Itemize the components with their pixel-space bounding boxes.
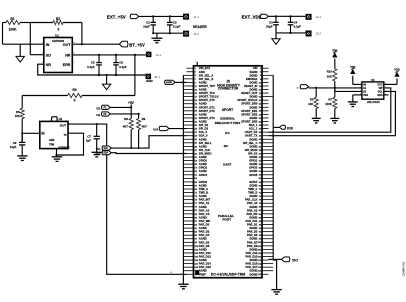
wire: [139, 15, 184, 17]
svg-text:100K: 100K: [325, 102, 332, 106]
wire SCL to EEPROM: [269, 88, 391, 133]
svg-text:TRM: TRM: [49, 144, 54, 147]
node J2-1 pad: [306, 15, 321, 20]
svg-text:DGND: DGND: [249, 237, 257, 241]
svg-text:3: 3: [360, 90, 361, 92]
svg-text:VREF: VREF: [199, 272, 207, 276]
node P1 flag: [96, 105, 132, 110]
svg-text:AGND: AGND: [199, 183, 207, 187]
svg-text:GPIO0: GPIO0: [199, 159, 208, 163]
svg-text:SD: SD: [46, 53, 51, 57]
capacitor C4: [288, 16, 302, 33]
svg-text:J4-1: J4-1: [156, 53, 162, 57]
svg-text:DC: DC: [225, 131, 230, 135]
svg-text:0.1µF: 0.1µF: [87, 65, 95, 69]
svg-text:AGND: AGND: [199, 215, 207, 219]
svg-text:U2: U2: [59, 117, 63, 121]
node J4-1 testpoint: [147, 51, 162, 57]
svg-text:4K7: 4K7: [142, 124, 148, 128]
svg-text:IO8: IO8: [287, 127, 293, 131]
svg-text:PAR_WR: PAR_WR: [199, 219, 211, 223]
svg-text:VDD: VDD: [332, 49, 337, 52]
node BT_+5V flag: [119, 41, 145, 47]
svg-text:HEADER: HEADER: [193, 25, 208, 29]
svg-text:GPIO4: GPIO4: [199, 173, 208, 177]
node J1-1 pad: [184, 14, 199, 19]
svg-text:SPORT_DT3: SPORT_DT3: [199, 116, 215, 120]
svg-text:UART_TX: UART_TX: [245, 134, 258, 138]
wire AGND rail: [38, 64, 147, 75]
connector J5 body: [194, 61, 263, 277]
svg-text:PAR_D7: PAR_D7: [247, 240, 258, 244]
svg-text:10µF: 10µF: [143, 25, 150, 29]
svg-text:DGND: DGND: [249, 183, 257, 187]
wire: [384, 78, 397, 84]
node EXT_VDD flag: [242, 14, 269, 19]
wire SCL: [111, 136, 186, 148]
capacitor C7: [86, 123, 100, 152]
svg-text:SDA: SDA: [377, 94, 382, 97]
node U14 flag: [153, 126, 186, 131]
svg-text:2: 2: [360, 87, 361, 89]
wire: [138, 114, 140, 119]
node divider: [29, 43, 31, 45]
node J1 HEADER: [193, 25, 208, 29]
svg-text:U14: U14: [153, 127, 158, 131]
node VIO flag: [269, 257, 299, 263]
svg-text:SPI_MISO: SPI_MISO: [199, 151, 212, 155]
svg-text:DGND: DGND: [249, 70, 257, 74]
svg-text:AGND: AGND: [199, 194, 207, 198]
svg-text:AGND: AGND: [199, 155, 207, 159]
svg-text:SDA_0: SDA_0: [199, 134, 208, 138]
svg-text:PAR_A2: PAR_A2: [247, 208, 258, 212]
svg-text:PAR_D10: PAR_D10: [199, 251, 211, 255]
svg-text:PAR_D17: PAR_D17: [245, 265, 257, 269]
svg-text:AGND: AGND: [199, 247, 207, 251]
wire AGND bus left: [182, 75, 184, 284]
wire: [384, 94, 389, 96]
svg-text:10µF: 10µF: [10, 145, 17, 149]
svg-text:TMR_D: TMR_D: [248, 191, 257, 195]
svg-text:SPI_SS: SPI_SS: [248, 151, 258, 155]
wire DGND bus right: [273, 75, 276, 289]
svg-text:AGND: AGND: [199, 88, 207, 92]
svg-text:AGND: AGND: [199, 112, 207, 116]
ground: [16, 44, 24, 62]
svg-text:DGND: DGND: [249, 169, 257, 173]
svg-text:TMR_A: TMR_A: [199, 187, 208, 191]
svg-text:VDD: VDD: [394, 69, 399, 72]
svg-text:PAR_D0: PAR_D0: [199, 223, 210, 227]
resistor R10 pullup: [327, 59, 337, 88]
svg-text:PAR_D16: PAR_D16: [199, 265, 211, 269]
svg-text:U4: U4: [371, 78, 375, 82]
svg-text:TMR_C: TMR_C: [248, 187, 257, 191]
svg-text:PAR_D4: PAR_D4: [199, 233, 210, 237]
wire: [152, 32, 184, 34]
svg-text:4K7: 4K7: [123, 124, 129, 128]
svg-text:GND: GND: [199, 70, 205, 74]
svg-text:VSS: VSS: [363, 94, 368, 97]
ground: [178, 284, 188, 289]
svg-text:DGND: DGND: [249, 226, 257, 230]
svg-text:PAR_D2: PAR_D2: [199, 230, 210, 234]
svg-text:AGND: AGND: [199, 269, 207, 273]
svg-text:SPI_SEL_B: SPI_SEL_B: [199, 77, 214, 81]
svg-text:PAR_CS: PAR_CS: [199, 212, 210, 216]
svg-text:VIN_BAT: VIN_BAT: [199, 66, 211, 70]
ground: [330, 118, 339, 123]
node EXT_+5V flag: [107, 14, 139, 19]
svg-text:PAR_D15: PAR_D15: [245, 262, 257, 266]
svg-text:PAR_D14: PAR_D14: [199, 262, 211, 266]
resistor R1: [3, 17, 31, 32]
resistor R4: [22, 88, 135, 102]
svg-text:SPORT_TSCLK: SPORT_TSCLK: [199, 95, 219, 99]
wire: [276, 32, 306, 34]
wire: [56, 149, 58, 157]
svg-text:NR: NR: [46, 63, 52, 67]
svg-text:AGND: AGND: [199, 162, 207, 166]
ground: [92, 152, 102, 157]
svg-text:SPI_SEL_A: SPI_SEL_A: [199, 73, 214, 77]
svg-text:GPIO6: GPIO6: [199, 180, 208, 184]
svg-text:U1: U1: [55, 33, 59, 37]
wire: [335, 88, 362, 92]
svg-text:DGND: DGND: [249, 194, 257, 198]
svg-text:DGND: DGND: [249, 95, 257, 99]
svg-text:0.1µF: 0.1µF: [294, 25, 302, 29]
svg-text:AGND: AGND: [199, 144, 207, 148]
node OUT: [81, 43, 83, 45]
svg-text:PAR_RD: PAR_RD: [247, 212, 258, 216]
svg-text:SPORT_DR3: SPORT_DR3: [241, 120, 258, 124]
svg-text:R6: R6: [310, 97, 314, 101]
capacitor C3: [266, 16, 279, 33]
svg-text:AGND: AGND: [199, 205, 207, 209]
capacitor C1: [143, 16, 156, 33]
svg-text:60: 60: [170, 272, 172, 274]
svg-text:DGND: DGND: [249, 73, 257, 77]
resistor R2: [30, 17, 82, 32]
svg-text:6: 6: [385, 90, 386, 92]
svg-text:UART_RX: UART_RX: [245, 130, 258, 134]
svg-text:DGND: DGND: [249, 88, 257, 92]
power VDD: [350, 66, 355, 74]
wire: [21, 96, 23, 109]
svg-text:1µF: 1µF: [86, 138, 91, 142]
svg-text:0.1µF: 0.1µF: [119, 65, 127, 69]
svg-text:1: 1: [195, 61, 196, 63]
svg-text:SPI_D3: SPI_D3: [199, 127, 209, 131]
svg-text:11485-001: 11485-001: [401, 261, 405, 276]
svg-text:PAR_D9: PAR_D9: [247, 244, 258, 248]
svg-text:VIN: VIN: [253, 66, 258, 70]
svg-text:SCL_0: SCL_0: [199, 130, 208, 134]
svg-text:0: 0: [58, 28, 60, 32]
svg-text:J1-1: J1-1: [193, 15, 199, 19]
svg-text:PAR_D5: PAR_D5: [247, 233, 258, 237]
svg-text:BMODE1: BMODE1: [246, 77, 258, 81]
svg-text:0: 0: [74, 98, 76, 102]
svg-text:SPORT_DT1: SPORT_DT1: [199, 105, 215, 109]
svg-text:2: 2: [50, 120, 51, 122]
node P2 flag: [96, 112, 139, 117]
svg-text:DGND: DGND: [249, 80, 257, 84]
svg-text:J6-1: J6-1: [154, 75, 160, 79]
svg-text:SCL: SCL: [96, 148, 101, 151]
resistor R9: [137, 117, 148, 129]
svg-text:SPORT_TFS: SPORT_TFS: [199, 91, 215, 95]
node +5V label: [128, 101, 135, 105]
ground: [17, 156, 27, 161]
svg-text:J2-2: J2-2: [316, 32, 322, 36]
svg-text:SCL_1: SCL_1: [249, 127, 258, 131]
svg-text:SPI_MOSI: SPI_MOSI: [245, 148, 258, 152]
svg-text:AGND: AGND: [199, 102, 207, 106]
svg-text:1: 1: [147, 51, 148, 53]
capacitor C2: [167, 16, 181, 33]
svg-text:SPORT_DT0: SPORT_DT0: [199, 98, 215, 102]
node AGND flag: [165, 80, 187, 84]
svg-text:AGND: AGND: [199, 258, 207, 262]
svg-text:AGND: AGND: [199, 237, 207, 241]
svg-text:DGND: DGND: [249, 258, 257, 262]
capacitor C5: [87, 54, 102, 76]
svg-text:10K: 10K: [327, 74, 332, 78]
svg-text:SPORT_DR1: SPORT_DR1: [241, 109, 258, 113]
power VDD: [332, 49, 337, 57]
svg-text:R4: R4: [72, 88, 76, 92]
svg-text:SPORT_DR2: SPORT_DR2: [241, 112, 258, 116]
svg-text:ADR4525: ADR4525: [58, 145, 70, 149]
svg-text:SPI_CLK: SPI_CLK: [199, 148, 210, 152]
node REFIN: [21, 132, 23, 134]
svg-text:PAR_D12: PAR_D12: [199, 255, 211, 259]
svg-text:SPORT_DR0: SPORT_DR0: [241, 102, 258, 106]
svg-text:PORT: PORT: [222, 217, 231, 221]
svg-text:PAR_A0: PAR_A0: [247, 201, 258, 205]
svg-text:EXT_+5V: EXT_+5V: [107, 14, 126, 19]
svg-text:RESET_OUT: RESET_OUT: [241, 91, 257, 95]
capacitor C6: [113, 54, 127, 76]
wire: [3, 43, 44, 45]
svg-text:GND: GND: [146, 79, 154, 83]
eeprom U4 24LC32: [360, 78, 386, 104]
connector J5 pin names: [199, 66, 258, 276]
svg-text:BREAKOUT PINS: BREAKOUT PINS: [215, 121, 241, 125]
svg-text:SDA: SDA: [96, 152, 101, 155]
svg-text:SDA_1: SDA_1: [249, 123, 258, 127]
resistor R5: [15, 108, 24, 119]
wire: [2, 23, 4, 45]
ground: [151, 33, 162, 43]
node J1-2 pad: [184, 31, 199, 36]
wire: [138, 130, 140, 149]
svg-text:DGND: DGND: [249, 105, 257, 109]
svg-text:PAR_D6: PAR_D6: [199, 240, 210, 244]
resistor R6: [308, 88, 318, 119]
svg-text:GPIO3: GPIO3: [249, 166, 258, 170]
svg-text:RESET_IN: RESET_IN: [244, 84, 257, 88]
svg-text:J1-2: J1-2: [193, 32, 199, 36]
svg-text:3: 3: [58, 120, 59, 122]
svg-text:R9: R9: [142, 117, 146, 121]
svg-text:SPI_SEL1: SPI_SEL1: [199, 141, 212, 145]
node A0 flag: [296, 85, 308, 90]
svg-text:SCL: SCL: [103, 148, 108, 150]
svg-text:DGND: DGND: [249, 116, 257, 120]
wire: [22, 132, 40, 134]
ground: [312, 118, 321, 123]
wire: [353, 76, 362, 85]
connector J5 pin numbers: [195, 68, 262, 276]
ground: [102, 74, 110, 90]
svg-text:EXT_VDD: EXT_VDD: [242, 14, 262, 19]
ground: [272, 33, 280, 45]
svg-text:AGND: AGND: [199, 226, 207, 230]
wire: [81, 23, 83, 45]
wire SDA: [111, 152, 186, 155]
svg-text:TP: TP: [64, 134, 67, 137]
wire: [30, 23, 44, 55]
wire: [134, 54, 136, 96]
node J2-2 pad: [306, 31, 321, 36]
svg-text:10K: 10K: [15, 114, 20, 118]
svg-text:10µF: 10µF: [266, 25, 273, 29]
connector J5 labels: [195, 80, 245, 277]
svg-text:PAR_A3: PAR_A3: [199, 208, 210, 212]
svg-text:AGND: AGND: [199, 169, 207, 173]
svg-text:DGND: DGND: [249, 247, 257, 251]
svg-text:IN: IN: [46, 43, 50, 47]
svg-text:GPIO2: GPIO2: [199, 166, 208, 170]
svg-text:GPIO7: GPIO7: [249, 180, 258, 184]
svg-text:R5: R5: [16, 110, 20, 114]
svg-text:100K: 100K: [8, 28, 17, 32]
svg-text:PAR_D13: PAR_D13: [245, 255, 257, 259]
svg-text:AGND: AGND: [166, 81, 173, 84]
svg-text:DGND: DGND: [249, 162, 257, 166]
power VDD: [394, 69, 399, 77]
svg-text:R10: R10: [327, 70, 333, 74]
svg-text:0.1µF: 0.1µF: [173, 25, 181, 29]
svg-text:ERR: ERR: [63, 63, 71, 67]
wire: [21, 119, 23, 143]
svg-text:7: 7: [385, 87, 386, 89]
svg-text:VDD: VDD: [350, 66, 355, 69]
svg-text:TMR_B: TMR_B: [199, 191, 208, 195]
resistor R8: [123, 117, 134, 129]
svg-text:DGND: DGND: [249, 137, 257, 141]
svg-text:DGND: DGND: [249, 269, 257, 273]
svg-text:DGND: DGND: [249, 144, 257, 148]
resistor R7: [325, 88, 337, 119]
regulator U1 ADP3303: [41, 33, 75, 72]
ground: [348, 102, 358, 107]
wire: [309, 87, 362, 89]
svg-text:AGND: AGND: [199, 137, 207, 141]
wire VREF rail: [68, 124, 187, 274]
node IO8 flag right: [273, 125, 292, 131]
svg-text:PAR_CLK: PAR_CLK: [245, 198, 258, 202]
capacitor C8: [10, 133, 26, 156]
svg-text:GPIO1: GPIO1: [249, 159, 258, 163]
wire: [353, 95, 362, 102]
svg-text:R1: R1: [10, 17, 14, 21]
svg-text:SPORT_RSCLK: SPORT_RSCLK: [237, 98, 257, 102]
wire: [130, 105, 132, 119]
svg-text:GND: GND: [49, 139, 55, 142]
svg-text:PAR_INT: PAR_INT: [199, 198, 211, 202]
svg-text:GENERAL: GENERAL: [220, 116, 235, 120]
svg-text:DC-4-EVAL/SDP-TRM: DC-4-EVAL/SDP-TRM: [211, 272, 245, 276]
node SCL flag: [96, 146, 111, 151]
svg-text:DGND: DGND: [249, 215, 257, 219]
svg-text:SPI_SEL_C: SPI_SEL_C: [243, 141, 258, 145]
svg-text:VIO: VIO: [292, 259, 298, 263]
svg-text:SPORT: SPORT: [222, 108, 233, 112]
wire SDA to EEPROM: [269, 91, 396, 136]
svg-text:10K: 10K: [308, 102, 313, 106]
ground: [271, 290, 281, 295]
svg-text:BT_+5V: BT_+5V: [129, 43, 145, 48]
wire VOUT: [72, 43, 119, 45]
wire: [268, 15, 306, 17]
svg-text:24LC32A: 24LC32A: [367, 100, 381, 104]
svg-text:AGND: AGND: [199, 120, 207, 124]
svg-text:OUT: OUT: [63, 43, 71, 47]
wire NR rail: [72, 54, 146, 56]
svg-text:PAR_D3: PAR_D3: [247, 230, 258, 234]
wire: [130, 130, 132, 149]
svg-text:PAR_FS1: PAR_FS1: [245, 219, 257, 223]
svg-text:PAR_D1: PAR_D1: [247, 223, 258, 227]
connector J5 pin stubs: [183, 68, 273, 274]
svg-text:R7: R7: [328, 97, 332, 101]
svg-text:NR: NR: [65, 53, 71, 57]
node figure number: [401, 261, 405, 276]
svg-text:DGND: DGND: [249, 155, 257, 159]
svg-text:DGND: DGND: [249, 272, 257, 276]
svg-text:PAR_D8: PAR_D8: [199, 244, 210, 248]
svg-text:PAR_A1: PAR_A1: [199, 201, 210, 205]
svg-text:R8: R8: [124, 117, 128, 121]
svg-text:SDA: SDA: [103, 152, 108, 155]
svg-text:CONNECTOR: CONNECTOR: [218, 87, 239, 91]
svg-text:UART: UART: [223, 163, 232, 167]
node J6-1 GND testpoint: [146, 74, 160, 83]
svg-text:SPORT_TDV: SPORT_TDV: [199, 84, 215, 88]
svg-text:PAR_D11: PAR_D11: [246, 251, 258, 255]
svg-text:+5V: +5V: [128, 101, 135, 105]
wire trim loop: [55, 133, 83, 156]
svg-text:R2: R2: [56, 17, 60, 21]
svg-text:SPI_D2: SPI_D2: [199, 123, 209, 127]
svg-text:GPIO5: GPIO5: [249, 173, 258, 177]
svg-text:J2-1: J2-1: [316, 15, 322, 19]
node SDA flag: [96, 151, 112, 156]
svg-text:SPORT_DT2: SPORT_DT2: [199, 109, 215, 113]
ground: [52, 157, 62, 162]
svg-text:AGND: AGND: [199, 80, 207, 84]
svg-text:OUT: OUT: [60, 124, 67, 128]
voltage reference U2 ADR4525: [40, 117, 70, 150]
svg-text:DGND: DGND: [249, 205, 257, 209]
